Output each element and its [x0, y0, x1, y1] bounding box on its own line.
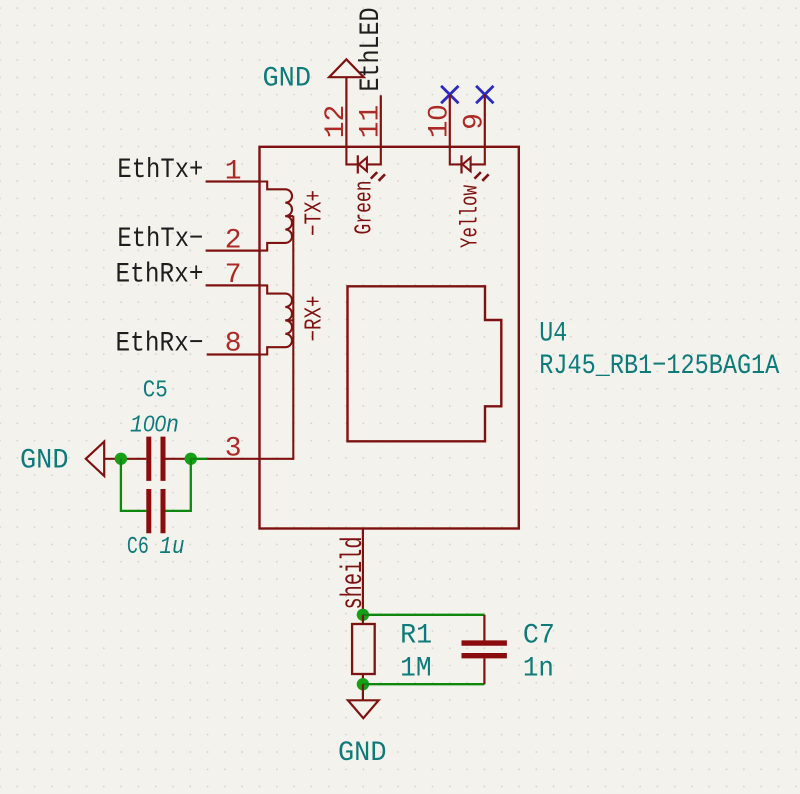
LED green emission arrows — [371, 172, 385, 181]
svg-text:U4: U4 — [539, 318, 567, 349]
svg-text:EthTx+: EthTx+ — [117, 155, 203, 186]
wire junction-right to pin 3 — [191, 458, 208, 460]
GND power symbol top — [329, 59, 364, 77]
capacitor C5 left pin — [121, 458, 146, 460]
svg-text:11: 11 — [355, 105, 386, 139]
svg-text:8: 8 — [225, 329, 242, 360]
svg-text:C5: C5 — [143, 378, 168, 405]
pin 8 — [207, 353, 260, 355]
no-connect X pin 9 — [476, 86, 493, 103]
wire junction-left to C6 — [121, 459, 146, 511]
junction right of C5 — [185, 453, 197, 465]
LED green cathode lead (pin 12) — [346, 147, 357, 165]
wire bottom R1 to C7 — [363, 683, 485, 685]
pin 7 — [206, 284, 260, 286]
capacitor C6 right plate — [161, 489, 166, 533]
junction shield bottom — [357, 678, 369, 690]
svg-text:C6: C6 — [127, 534, 149, 561]
resistor R1 bottom pin — [362, 674, 364, 684]
wire junction-right to C6 — [166, 459, 191, 511]
svg-text:RJ45_RB1−125BAG1A: RJ45_RB1−125BAG1A — [539, 351, 779, 382]
svg-text:sheild: sheild — [337, 537, 371, 610]
transformer RX winding — [260, 285, 293, 354]
LED green cathode bar — [357, 155, 359, 173]
svg-text:EthTx−: EthTx− — [117, 224, 203, 255]
svg-text:2: 2 — [225, 226, 242, 257]
svg-text:12: 12 — [321, 105, 352, 139]
svg-text:EthRx−: EthRx− — [116, 328, 204, 359]
svg-text:Green: Green — [352, 181, 379, 235]
svg-text:C7: C7 — [523, 621, 555, 652]
transformer TX winding — [260, 182, 293, 251]
capacitor C5 left plate — [146, 437, 151, 481]
LED yellow triangle — [463, 158, 471, 172]
wire pin 10 — [449, 95, 451, 147]
LED yellow anode lead (pin 9) — [471, 147, 485, 165]
wire pin 9 — [484, 95, 486, 147]
svg-text:1: 1 — [225, 157, 242, 188]
transformer RX center tap stub — [285, 319, 293, 321]
resistor R1 top pin — [362, 615, 364, 624]
capacitor C7 top pin — [483, 615, 485, 641]
no-connect X pin 10 — [441, 86, 458, 103]
svg-text:−TX+: −TX+ — [301, 190, 328, 236]
connector U4 body outline — [260, 147, 519, 529]
capacitor C7 top plate — [462, 640, 507, 645]
wire junction to GND bottom — [362, 684, 364, 700]
svg-text:1n: 1n — [523, 653, 554, 684]
capacitor C7 bottom plate — [462, 653, 507, 658]
wire GND top to pin 12 — [345, 77, 347, 147]
pin 1 — [206, 180, 260, 182]
svg-text:R1: R1 — [400, 621, 432, 652]
RJ45 jack opening outline — [348, 286, 502, 441]
GND power symbol bottom — [348, 700, 379, 718]
capacitor C5 right pin — [166, 458, 191, 460]
GND left pin — [104, 458, 121, 460]
svg-text:1u: 1u — [160, 534, 185, 561]
capacitor C6 left plate — [146, 489, 151, 533]
svg-text:1M: 1M — [400, 653, 432, 684]
wire top R1 to C7 — [363, 614, 485, 616]
wire pin 11 to EthLED — [380, 95, 382, 147]
junction left of C5 — [115, 453, 127, 465]
svg-text:7: 7 — [225, 260, 242, 291]
LED yellow cathode lead (pin 10) — [450, 147, 462, 165]
LED yellow emission arrows — [475, 172, 489, 181]
svg-text:GND: GND — [338, 738, 387, 769]
pin 3 — [208, 458, 260, 460]
LED green triangle — [359, 158, 367, 172]
capacitor C5 right plate — [161, 437, 166, 481]
LED green anode lead (pin 11) — [367, 147, 381, 165]
GND power symbol left — [86, 442, 104, 476]
svg-text:−RX+: −RX+ — [301, 296, 328, 342]
center tap line to pin 3 — [260, 216, 294, 459]
svg-text:EthRx+: EthRx+ — [116, 259, 204, 290]
LED yellow cathode bar — [460, 155, 462, 173]
transformer TX center tap stub — [285, 215, 293, 217]
svg-text:3: 3 — [225, 434, 242, 465]
resistor R1 body — [352, 624, 375, 674]
pin 2 — [206, 250, 260, 252]
junction shield top — [357, 609, 369, 621]
svg-text:EthLED: EthLED — [356, 8, 387, 92]
svg-text:100n: 100n — [130, 411, 179, 440]
wire shield from box — [362, 529, 364, 615]
svg-text:GND: GND — [263, 64, 312, 95]
capacitor C7 bottom pin — [483, 658, 485, 684]
svg-text:Yellow: Yellow — [457, 185, 484, 248]
svg-text:GND: GND — [20, 446, 69, 477]
